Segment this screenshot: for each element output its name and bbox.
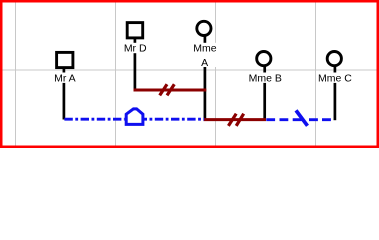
svg-text:Mme: Mme: [193, 43, 216, 55]
svg-text:Mme B: Mme B: [249, 72, 282, 84]
svg-text:A: A: [201, 57, 208, 69]
svg-text:Mr A: Mr A: [54, 72, 76, 84]
svg-text:Mme C: Mme C: [318, 72, 352, 84]
svg-text:Mr D: Mr D: [124, 43, 147, 55]
